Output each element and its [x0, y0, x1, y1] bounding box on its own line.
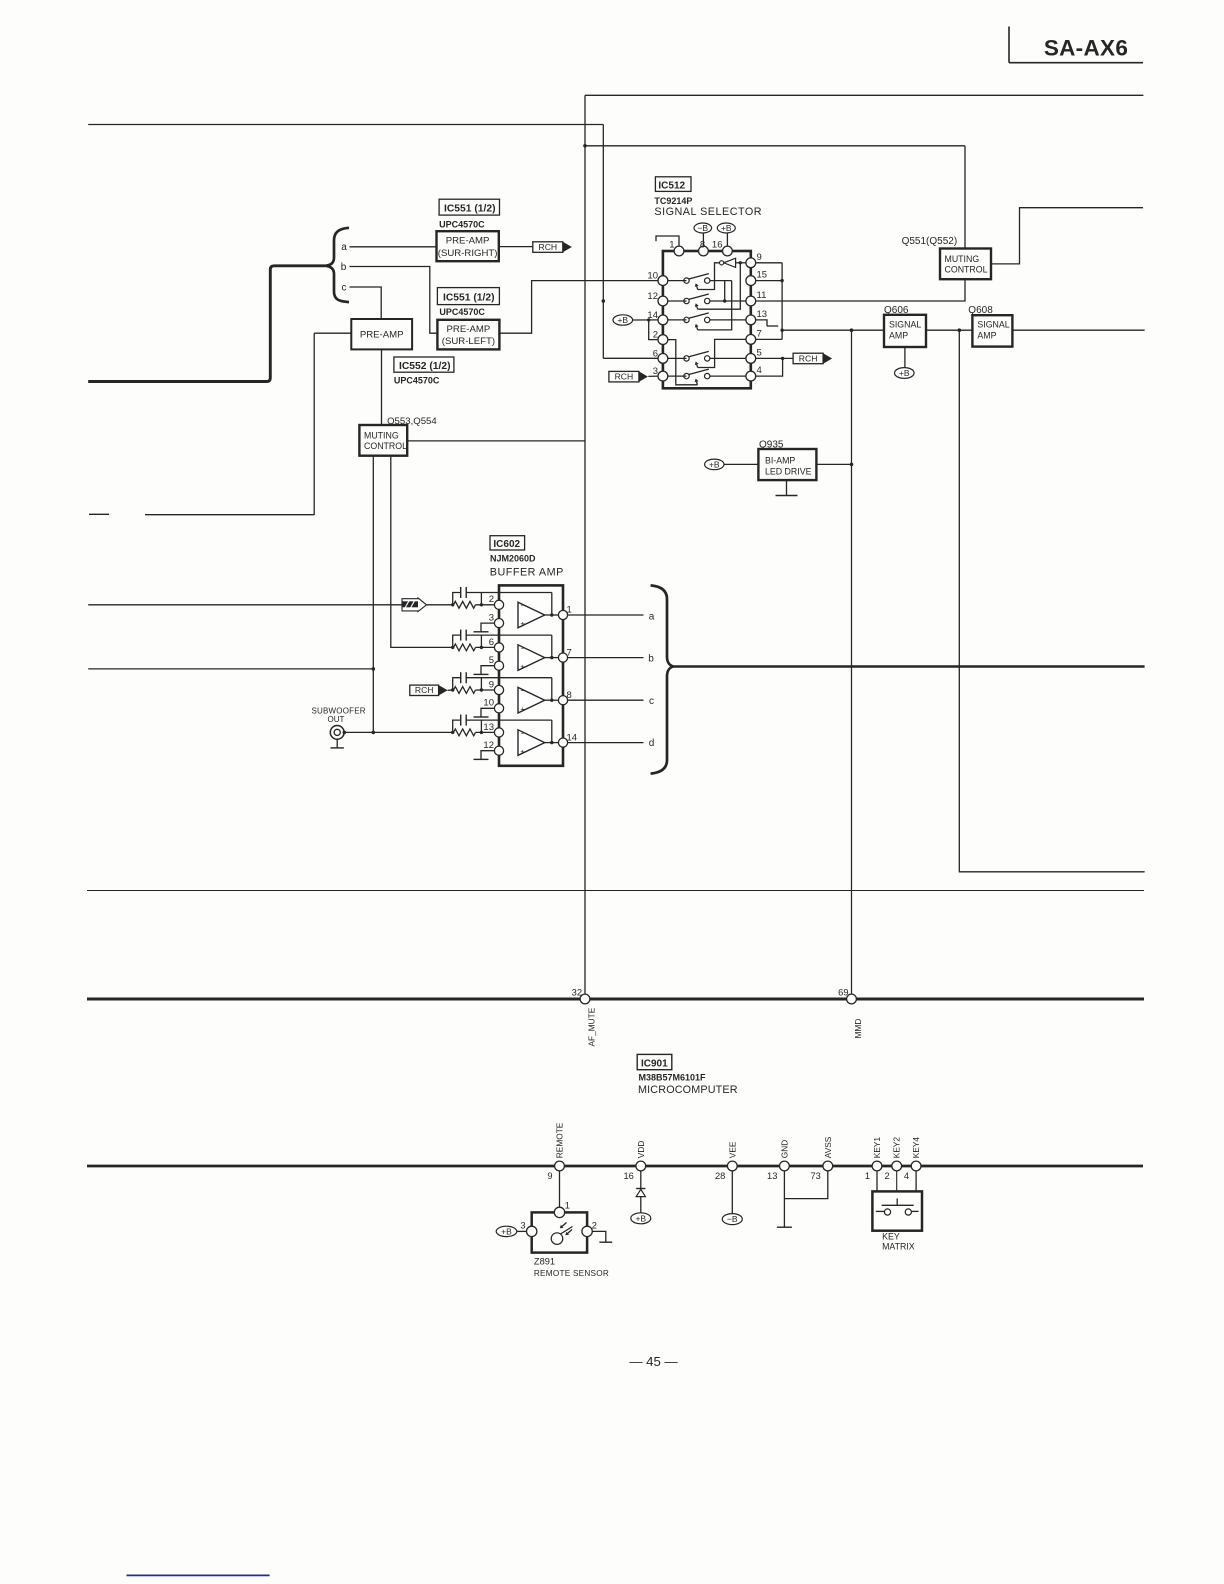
wire stub y=514.5 left margin — [89, 513, 109, 515]
wire row6 output to pin 5 — [710, 357, 746, 359]
capacitor feedback ch8 — [460, 672, 462, 683]
svg-text:Q551(Q552): Q551(Q552) — [902, 236, 958, 247]
svg-text:MATRIX: MATRIX — [882, 1241, 915, 1251]
pin 5 — [494, 661, 503, 670]
pin 28 VEE — [727, 1161, 737, 1171]
wire y=515 — [145, 514, 314, 516]
junction input node ch7 — [451, 646, 454, 649]
photodiode inside sensor — [551, 1223, 572, 1245]
svg-text:8: 8 — [567, 690, 572, 701]
svg-text:+: + — [520, 619, 525, 629]
svg-text:9: 9 — [489, 679, 494, 690]
svg-text:+: + — [520, 661, 525, 671]
svg-text:2: 2 — [653, 330, 658, 341]
pin 12 — [658, 296, 668, 306]
wire Q935 output to MMD net — [816, 463, 851, 465]
pin 15 — [746, 276, 756, 286]
pin 2 — [658, 335, 668, 345]
svg-text:−B: −B — [727, 1214, 738, 1224]
pin 69 MMD — [847, 994, 857, 1004]
svg-text:5: 5 — [489, 655, 494, 666]
svg-text:IC512: IC512 — [658, 180, 685, 191]
pin 3 sensor — [527, 1226, 537, 1236]
pin 13 — [746, 315, 756, 325]
svg-text:8: 8 — [700, 240, 705, 251]
svg-text:IC552 (1/2): IC552 (1/2) — [399, 361, 451, 372]
svg-text:IC901: IC901 — [641, 1058, 668, 1069]
resistor input ch14 — [454, 729, 476, 736]
wire rch to ch3 node — [448, 689, 453, 691]
op-amp U-IC551b PRE-AMP (SUR-LEFT) — [437, 320, 499, 350]
wire buffer ch1 input from left margin — [88, 604, 453, 606]
svg-text:2: 2 — [489, 594, 494, 605]
svg-text:RCH: RCH — [538, 242, 557, 252]
flag RCH output pin5 — [793, 353, 823, 364]
op-amp U-IC602 ch8 triangle — [518, 687, 545, 713]
block Q935 BI-AMP LED DRIVE — [758, 449, 816, 480]
junction feedback node ch7 — [480, 646, 483, 649]
op-amp U-IC602 ch7 triangle — [518, 645, 545, 671]
junction input node ch8 — [451, 688, 454, 691]
svg-text:10: 10 — [483, 698, 494, 709]
wire row3 output to pin 4 — [710, 375, 746, 377]
svg-text:2: 2 — [885, 1171, 890, 1181]
svg-text:1: 1 — [865, 1171, 870, 1181]
pin 2 KEY2 — [892, 1161, 902, 1171]
wire cap right / feedback run ch8 — [466, 677, 552, 679]
wire VDD to diode — [640, 1171, 642, 1189]
svg-text:TC9214P: TC9214P — [654, 196, 692, 206]
svg-text:KEY4: KEY4 — [911, 1137, 921, 1159]
block Q551 MUTING CONTROL — [940, 249, 991, 280]
svg-text:c: c — [649, 696, 654, 707]
power -B VEE — [722, 1214, 742, 1225]
wire pin 14 to brace — [568, 742, 644, 744]
junction input node ch1 — [451, 603, 454, 606]
svg-text:Z891: Z891 — [534, 1257, 555, 1267]
junction feedback node ch8 — [480, 688, 483, 691]
svg-text:NJM2060D: NJM2060D — [490, 554, 536, 564]
wire pin3 lead — [668, 375, 687, 377]
svg-text:a: a — [649, 611, 655, 622]
svg-text:+B: +B — [709, 460, 720, 470]
wire feedback drop to input node ch7 — [480, 635, 482, 647]
svg-text:1: 1 — [669, 240, 674, 251]
wire cap right / feedback run ch14 — [466, 719, 552, 721]
svg-text:3: 3 — [489, 613, 494, 624]
pin 4 KEY4 — [911, 1161, 921, 1171]
wire pin7 control feed to row6 — [698, 339, 746, 367]
svg-text:OUT: OUT — [328, 715, 345, 724]
svg-text:MUTING: MUTING — [364, 430, 399, 440]
pin 9 — [494, 685, 503, 694]
svg-text:UPC4570C: UPC4570C — [394, 376, 440, 386]
wire feedback drop to input node ch14 — [480, 720, 482, 732]
svg-text:−: − — [521, 643, 526, 653]
flag RCH output sur-right — [533, 242, 563, 253]
wire op-amp to pin 14 — [545, 742, 559, 744]
wire pin 7 to brace — [568, 657, 644, 659]
svg-text:SA-AX6: SA-AX6 — [1044, 36, 1128, 61]
wire op-amp to pin 8 — [545, 699, 559, 701]
pin 73 AVSS — [823, 1161, 833, 1171]
wire resistor to pin 9 — [476, 689, 495, 691]
block KEY MATRIX — [872, 1191, 922, 1230]
pin 8 output — [558, 696, 567, 705]
wire pre-amp ic552 left input — [314, 332, 351, 334]
svg-text:d: d — [649, 738, 655, 749]
wire y=668.9 from left margin — [88, 668, 373, 670]
junction Q935 net — [850, 328, 854, 332]
wire pin16 to +B — [726, 233, 728, 246]
svg-text:3: 3 — [653, 366, 658, 377]
svg-text:REMOTE: REMOTE — [555, 1122, 565, 1158]
pin 3 — [494, 619, 503, 628]
label box IC602 — [490, 536, 525, 550]
svg-text:CONTROL: CONTROL — [945, 264, 988, 274]
svg-text:5: 5 — [757, 347, 762, 358]
wire AVSS tie to GND — [784, 1171, 827, 1199]
wire row14 output to pin 13 — [710, 319, 746, 321]
junction y=668.9 — [372, 667, 376, 671]
ground pin 12 — [481, 751, 494, 760]
wire rch flag to pin3 — [648, 375, 658, 377]
wire cap left connection ch14 — [453, 720, 461, 732]
svg-text:+: + — [520, 704, 525, 714]
wire REMOTE to sensor — [559, 1171, 561, 1207]
svg-text:15: 15 — [757, 270, 768, 281]
wire cap right / feedback run ch1 — [466, 592, 552, 594]
ground GND pin13 — [777, 1226, 792, 1228]
wire row10 output — [710, 280, 732, 282]
wire resistor to pin 6 — [476, 646, 495, 648]
svg-text:SIGNAL: SIGNAL — [889, 319, 921, 329]
svg-text:73: 73 — [810, 1171, 820, 1181]
svg-text:M38B57M6101F: M38B57M6101F — [639, 1072, 707, 1082]
svg-text:IC551 (1/2): IC551 (1/2) — [443, 292, 495, 303]
wire pin6 lead — [668, 357, 687, 359]
svg-text:1: 1 — [567, 605, 572, 616]
svg-text:VDD: VDD — [636, 1141, 646, 1159]
svg-text:28: 28 — [715, 1171, 725, 1181]
wire b to pre-amp sur-left — [350, 267, 438, 334]
thick bus y=999 — [87, 998, 1144, 1001]
wire y=890.5 from left margin to right edge — [87, 890, 1144, 892]
power +B pin14 — [613, 315, 633, 325]
pin 1 output — [558, 610, 567, 619]
resistor input ch8 — [454, 687, 476, 694]
ground pin 10 — [481, 708, 494, 717]
wire MMD net vertical x=851.5 — [851, 330, 853, 994]
svg-text:13: 13 — [767, 1171, 777, 1181]
junction feedback node ch1 — [480, 603, 483, 606]
svg-text:+B: +B — [501, 1227, 512, 1237]
wire control row12 — [698, 263, 741, 309]
wire selector output vertical x=782 — [781, 263, 783, 340]
svg-text:AVSS: AVSS — [823, 1136, 833, 1158]
capacitor feedback ch7 — [460, 630, 462, 641]
pin13 stub — [756, 320, 767, 326]
junction input node ch14 — [451, 731, 454, 734]
label box IC551 (1/2) upper — [439, 199, 499, 215]
svg-text:11: 11 — [757, 290, 767, 301]
signal flow arrow ch1 input — [402, 598, 427, 612]
wire cap right / feedback run ch7 — [466, 634, 552, 636]
svg-text:c: c — [342, 282, 347, 293]
label box IC901 — [637, 1054, 672, 1069]
svg-text:SIGNAL SELECTOR: SIGNAL SELECTOR — [654, 206, 762, 218]
flag RCH input pin3 — [609, 371, 639, 382]
ground Q935 — [786, 480, 788, 495]
connector SUBWOOFER OUT — [312, 706, 366, 748]
svg-text:69: 69 — [838, 988, 848, 998]
wire pin5 to RCH flag — [756, 357, 793, 359]
svg-text:PRE-AMP: PRE-AMP — [446, 236, 490, 247]
wire pin7 — [756, 338, 782, 340]
power +B — [717, 223, 735, 233]
capacitor feedback ch1 — [460, 587, 462, 598]
svg-text:4: 4 — [757, 365, 762, 376]
resistor input ch7 — [454, 644, 476, 651]
junction feedback node ch14 — [480, 731, 483, 734]
svg-text:(SUR-RIGHT): (SUR-RIGHT) — [438, 248, 498, 259]
wire selector output to Q606 — [782, 329, 884, 331]
wire cap left connection ch1 — [453, 593, 461, 605]
svg-text:MUTING: MUTING — [945, 254, 980, 264]
svg-text:10: 10 — [647, 271, 658, 282]
svg-text:VEE: VEE — [727, 1141, 737, 1158]
wire Q606 to Q608 — [926, 329, 972, 331]
svg-text:−: − — [521, 728, 526, 738]
op-amp U-IC552 PRE-AMP — [351, 319, 412, 349]
svg-text:b: b — [648, 653, 654, 664]
svg-text:PRE-AMP: PRE-AMP — [360, 329, 404, 340]
pin 14 output — [558, 738, 567, 747]
svg-text:+: + — [520, 746, 525, 756]
junction pin5/pin4 tie — [781, 357, 784, 360]
wire control row10 from inverter — [698, 263, 720, 290]
pin 1 stub — [656, 236, 679, 246]
flag RCH buffer ch3 input — [410, 685, 439, 695]
wire vertical x=603.3 — [602, 125, 604, 359]
switch row pin12 — [684, 298, 689, 303]
wire cap left connection ch8 — [453, 678, 461, 690]
pin 14 — [658, 315, 668, 325]
pin 5 — [746, 354, 756, 364]
svg-text:AF_MUTE: AF_MUTE — [587, 1007, 597, 1046]
wire +B to Q935 — [724, 463, 758, 465]
op-amp U-IC551a PRE-AMP (SUR-RIGHT) — [437, 231, 499, 261]
wire pin11 to muting control Q551 — [756, 279, 965, 301]
svg-text:2: 2 — [592, 1221, 597, 1231]
pin 6 — [494, 643, 503, 652]
svg-text:12: 12 — [483, 740, 494, 751]
wire pin12 lead — [668, 300, 687, 302]
wire y=146 to muting control Q551 — [585, 145, 965, 147]
wire cap left connection ch7 — [453, 635, 461, 647]
pin 3 — [658, 371, 668, 381]
svg-text:AMP: AMP — [889, 330, 908, 340]
pin 9 REMOTE — [555, 1161, 565, 1171]
block Q606 SIGNAL AMP — [884, 315, 926, 347]
wire row12 output to pin 11 — [710, 300, 746, 302]
wire pin9 to selector output net — [756, 262, 782, 264]
svg-text:6: 6 — [489, 637, 494, 648]
junction x=959.3 — [958, 328, 962, 332]
svg-text:a: a — [341, 242, 347, 253]
svg-text:RCH: RCH — [615, 372, 634, 382]
pin 7 — [746, 335, 756, 345]
capacitor feedback ch14 — [460, 715, 462, 726]
thick bus y=1166 microcomputer — [87, 1165, 1143, 1168]
svg-text:BUFFER AMP: BUFFER AMP — [490, 566, 564, 578]
wire pin 8 to brace — [568, 699, 644, 701]
pin 1 KEY1 — [872, 1161, 882, 1171]
wire pin15 — [756, 280, 782, 282]
pin 16 — [723, 246, 733, 256]
svg-text:+B: +B — [721, 223, 732, 233]
svg-text:CONTROL: CONTROL — [364, 441, 407, 451]
wire KEY4 stem — [915, 1171, 917, 1191]
svg-text:4: 4 — [904, 1171, 909, 1181]
switch row pin10 — [684, 278, 689, 283]
wire vertical AF_MUTE net x=585 — [584, 95, 586, 994]
wire inverter input to pin9 — [736, 262, 746, 264]
svg-text:b: b — [341, 262, 347, 273]
wire VEE to -B — [731, 1171, 733, 1214]
wire pin6 feed — [603, 357, 658, 359]
wire +B to pin14 — [633, 319, 658, 321]
junction on AF_MUTE net at y=146 — [583, 144, 587, 148]
svg-text:KEY: KEY — [882, 1232, 900, 1242]
svg-text:9: 9 — [547, 1171, 552, 1181]
wire feedback drop to output ch8 — [551, 678, 553, 701]
switch row pin3 — [684, 373, 689, 378]
wire sur-right output — [499, 246, 533, 248]
pin 9 — [746, 258, 756, 268]
wire c to pre-amp ic552 — [350, 287, 382, 319]
svg-text:KEY2: KEY2 — [892, 1137, 902, 1159]
wire sur-left output to IC512 pin10 — [499, 281, 658, 334]
wire +B to pin3 — [517, 1230, 527, 1232]
junction +B pin14 branch — [647, 318, 650, 321]
ground pin 3 — [481, 623, 494, 632]
wire x=959.3 down and right to edge — [959, 330, 1144, 872]
diode D-VDD — [636, 1188, 645, 1190]
svg-text:−B: −B — [697, 223, 708, 233]
svg-text:+B: +B — [635, 1213, 646, 1223]
brace right outputs — [651, 585, 674, 773]
pin 16 VDD — [636, 1161, 646, 1171]
svg-text:16: 16 — [712, 240, 723, 251]
svg-text:LED DRIVE: LED DRIVE — [765, 467, 812, 477]
pin 4 — [746, 371, 756, 381]
svg-text:BI-AMP: BI-AMP — [765, 456, 795, 466]
junction on subwoofer line — [372, 731, 376, 735]
svg-text:— 45 —: — 45 — — [629, 1354, 678, 1369]
wire pin8 to -B — [702, 233, 704, 246]
label box IC552 (1/2) — [394, 357, 454, 372]
pin 10 — [494, 704, 503, 713]
wire muting control bottom right branch to buffer ch2 — [391, 456, 453, 648]
label box IC551 (1/2) lower — [437, 288, 499, 305]
ground pin 5 — [481, 666, 494, 675]
svg-text:KEY1: KEY1 — [872, 1137, 882, 1159]
resistor input ch1 — [454, 601, 476, 608]
svg-text:−: − — [521, 685, 526, 695]
svg-text:UPC4570C: UPC4570C — [439, 307, 485, 317]
wire row10 output drop to pin11 net — [724, 281, 726, 301]
wire Q608 output to right edge — [1012, 329, 1144, 331]
pin 32 AF_MUTE — [580, 994, 590, 1004]
junction subwoofer tap — [343, 731, 347, 735]
pin 7 output — [558, 653, 567, 662]
svg-text:3: 3 — [520, 1221, 525, 1231]
wire pin2 control feed to row3 — [668, 340, 698, 385]
wire muting control Q551 top stem — [964, 146, 966, 249]
pin 2 — [494, 600, 503, 609]
svg-text:IC602: IC602 — [493, 539, 520, 550]
power +B sensor — [496, 1226, 517, 1236]
thick wire output bus y=666.5 — [673, 665, 1144, 668]
block Q608 SIGNAL AMP — [972, 315, 1012, 346]
wire muting Q551 output — [991, 208, 1143, 264]
switch row pin6 — [684, 356, 689, 361]
svg-text:MMD: MMD — [853, 1019, 863, 1039]
power +B Q935 — [705, 459, 724, 470]
ground pin 2 sensor — [592, 1231, 605, 1242]
pin 10 — [658, 276, 668, 286]
wire ic552 output down to muting control — [381, 349, 383, 425]
power +B below Q606 — [895, 368, 915, 379]
label box IC512 — [655, 177, 691, 192]
wire KEY2 stem — [896, 1171, 898, 1191]
op-amp U-IC602 ch1 triangle — [518, 602, 545, 628]
svg-text:13: 13 — [757, 309, 768, 320]
title block SA-AX6 — [1009, 27, 1143, 63]
svg-text:+B: +B — [899, 368, 910, 378]
svg-text:+B: +B — [617, 315, 628, 325]
svg-text:1: 1 — [565, 1200, 570, 1210]
wire a to pre-amp sur-right — [350, 246, 437, 248]
wire pin 1 to brace — [568, 614, 644, 616]
pin 11 — [746, 296, 756, 306]
wire feedback drop to output ch7 — [551, 635, 553, 658]
svg-text:MICROCOMPUTER: MICROCOMPUTER — [638, 1084, 738, 1096]
wire branch to pin2 — [649, 320, 658, 340]
blue rule bottom left — [127, 1574, 270, 1576]
inverter U-IC512 internal — [724, 258, 736, 267]
svg-text:7: 7 — [757, 328, 762, 339]
pin 8 — [699, 246, 709, 256]
svg-text:14: 14 — [567, 732, 578, 743]
pin 13 GND — [780, 1161, 790, 1171]
thick wire from brace to left margin — [88, 266, 325, 382]
svg-text:RCH: RCH — [415, 685, 434, 695]
wire top bus y=95 — [585, 94, 1143, 96]
svg-text:6: 6 — [653, 348, 658, 359]
block Z891 REMOTE SENSOR — [532, 1212, 587, 1252]
pin 2 sensor — [582, 1226, 592, 1236]
svg-text:GND: GND — [779, 1140, 789, 1158]
wire resistor to pin 13 — [476, 731, 495, 733]
wire subwoofer to buffer ch4 — [344, 731, 452, 733]
svg-text:−: − — [521, 600, 526, 610]
wire muting control bottom left branch — [372, 456, 374, 733]
svg-text:16: 16 — [623, 1171, 633, 1181]
wire op-amp to pin 7 — [545, 657, 559, 659]
wire KEY1 stem — [876, 1171, 878, 1191]
